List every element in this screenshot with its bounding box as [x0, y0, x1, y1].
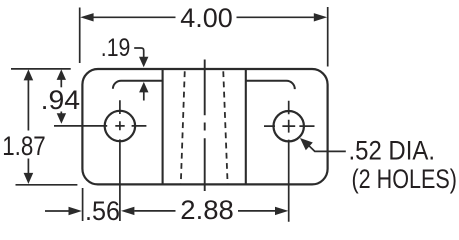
dim .19 arrow up	[139, 82, 148, 93]
dim .19 leader	[134, 48, 144, 58]
dia leader arrow	[300, 138, 313, 150]
dim 4.00 line	[93, 16, 314, 18]
svg-text:1.87: 1.87	[2, 130, 46, 161]
hole left center mark	[54, 100, 146, 221]
dim .56 extension line (part left edge)	[82, 188, 84, 221]
dim 2.88 arrow left	[121, 207, 134, 215]
hole right center mark	[264, 101, 315, 222]
svg-text:(2 HOLES): (2 HOLES)	[352, 164, 458, 194]
dim .56 leader tail	[45, 210, 69, 212]
dim 1.87 upper stem	[27, 79, 29, 131]
dim .94 arrow down	[57, 113, 66, 124]
dim 2.88 line	[134, 210, 275, 212]
hidden line right (dashed)	[223, 70, 227, 185]
svg-text:.19: .19	[101, 34, 131, 62]
inner flange line right	[246, 81, 295, 89]
dim 1.87 arrow down	[24, 173, 34, 184]
dim .94 lower stem	[60, 112, 62, 115]
dim 4.00 arrow left	[80, 13, 93, 21]
dim .56 arrow	[69, 207, 82, 215]
dim 1.87 arrow up	[24, 69, 34, 80]
part outline	[82, 69, 327, 184]
dim 1.87 lower stem	[27, 159, 29, 175]
svg-text:.52 DIA.: .52 DIA.	[349, 136, 436, 166]
dia leader line	[309, 145, 346, 151]
hidden line left (dashed)	[181, 70, 185, 185]
dim .19 arrow up stem	[143, 92, 145, 101]
hole right circle	[274, 111, 304, 141]
dim 4.00 arrow right	[314, 13, 327, 21]
svg-text:2.88: 2.88	[180, 194, 234, 225]
center section right edge	[245, 70, 247, 185]
dim .94 arrow up	[57, 69, 66, 80]
dim 1.87 extension line top	[11, 68, 71, 70]
dim 2.88 arrow right	[275, 207, 288, 215]
inner flange line left	[113, 81, 163, 89]
dim 1.87 extension line bottom	[16, 184, 78, 186]
svg-text:4.00: 4.00	[180, 2, 233, 33]
center section left edge	[162, 70, 164, 185]
dim 4.00 extension line left	[79, 8, 81, 64]
svg-text:.94: .94	[41, 84, 81, 115]
dim .19 arrow down	[139, 57, 148, 68]
svg-text:.56: .56	[85, 195, 120, 226]
hole left circle	[105, 111, 135, 141]
vertical centerline	[204, 60, 206, 192]
dim .94 upper stem	[60, 79, 62, 87]
dim 4.00 extension line right	[327, 7, 329, 67]
